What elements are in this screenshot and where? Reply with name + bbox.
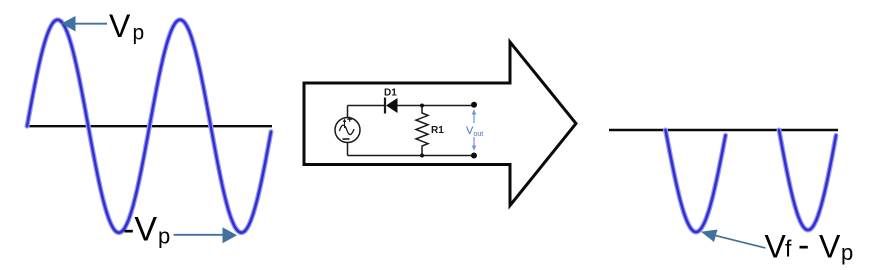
svg-text:V: V [819,229,841,265]
node junction top (resistor tap) [420,104,424,108]
svg-text:V: V [765,229,787,265]
source - sign [343,138,350,140]
output dip 1 halo [666,130,726,232]
svg-text:f: f [785,236,792,262]
svg-text:D1: D1 [384,88,397,99]
block arrow [304,42,576,206]
left waveform axis [28,125,273,127]
svg-text:-V: -V [123,211,157,249]
diode D1 [385,98,398,114]
bottom wire [348,155,475,157]
Vf-Vp callout arrow [701,230,766,249]
source + sign [347,117,352,122]
input sine wave halo [27,20,271,233]
output dip 2 halo [779,130,836,230]
svg-text:out: out [474,131,484,138]
output dip 1 [666,130,726,232]
circuit: top wire left segment [348,105,385,107]
node junction bottom [420,154,424,158]
resistor R1 [416,106,428,156]
Vout arrow top [472,109,476,151]
right waveform axis [609,129,838,132]
output dip 2 [779,130,836,230]
input sine wave [27,20,271,233]
svg-text:R1: R1 [431,125,444,136]
Vp callout arrow [62,16,108,32]
svg-text:p: p [158,224,170,249]
circuit: top wire right segment [397,105,474,107]
svg-text:-: - [798,227,809,265]
svg-text:p: p [841,240,853,265]
svg-text:p: p [133,22,145,45]
AC source V1 [335,106,360,156]
output terminal top [471,102,477,108]
-Vp callout arrow [174,227,238,243]
output terminal bottom [471,153,477,159]
svg-text:V: V [109,8,131,44]
